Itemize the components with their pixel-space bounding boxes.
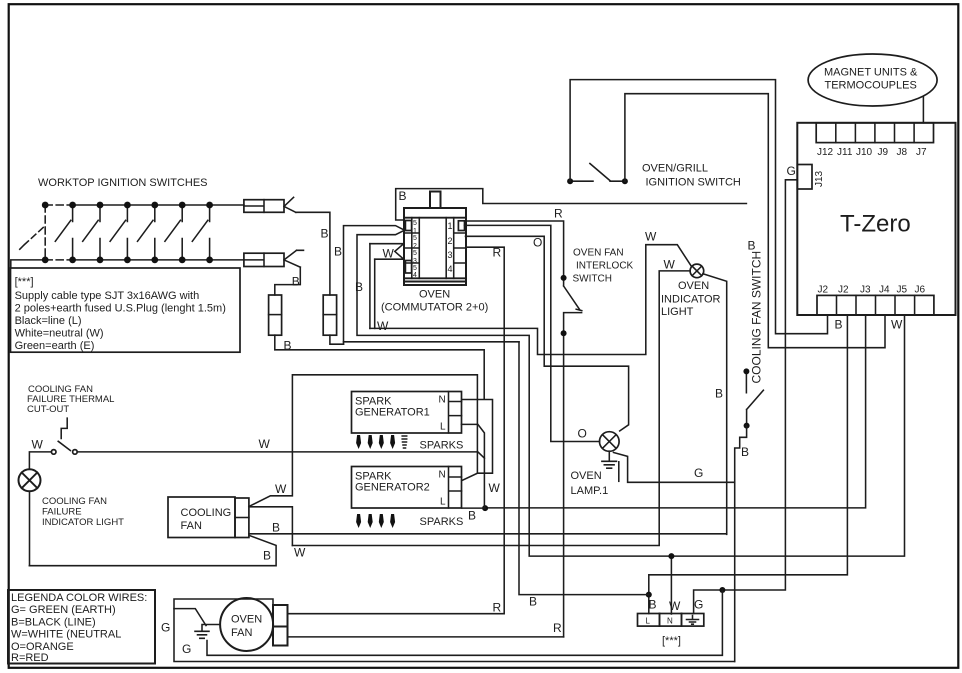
svg-text:J5: J5 [897, 285, 908, 296]
svg-text:4: 4 [413, 272, 417, 279]
svg-text:J6: J6 [915, 285, 926, 296]
svg-text:1: 1 [448, 221, 453, 231]
svg-text:B: B [649, 598, 657, 612]
oven commutator pin box left lower [405, 261, 411, 274]
svg-text:J13: J13 [814, 170, 825, 187]
wire B fuse F1 bottom to spark generator1 N [275, 335, 493, 473]
svg-text:J3: J3 [860, 285, 871, 296]
switch SW2 worktop [55, 205, 72, 260]
svg-text:B: B [334, 245, 342, 259]
svg-text:W: W [383, 247, 395, 261]
sparks arrows gen1 [356, 435, 395, 449]
oven fan motor M2 [220, 598, 273, 651]
svg-text:J12: J12 [817, 147, 834, 158]
svg-text:FAN: FAN [231, 627, 252, 639]
svg-text:[***]: [***] [662, 635, 681, 647]
connector arrow W into commutator [370, 244, 404, 260]
svg-text:OVEN: OVEN [571, 470, 602, 482]
svg-text:O: O [578, 427, 587, 441]
wire gen2 L to common dot [462, 507, 485, 509]
label supply cable note [15, 276, 226, 352]
sparks arrows gen2 [356, 514, 395, 528]
wire bottom rail dashed left [45, 259, 72, 261]
svg-text:FAN: FAN [181, 520, 202, 532]
oven commutator top band [404, 217, 466, 219]
svg-text:N: N [439, 470, 446, 481]
oven commutator pin box left top [405, 221, 411, 231]
spark generator2 pin column [449, 467, 462, 509]
wire J3 to spark generators common [485, 315, 865, 508]
svg-text:2 poles+earth fused U.S.Plug (: 2 poles+earth fused U.S.Plug (lenght 1.5… [15, 303, 226, 315]
label J2 J2 J3 J4 J5 J6 [818, 285, 926, 296]
svg-text:G= GREEN (EARTH): G= GREEN (EARTH) [11, 604, 116, 616]
svg-text:J10: J10 [856, 147, 873, 158]
svg-text:OVEN FAN: OVEN FAN [573, 248, 624, 259]
svg-text:J11: J11 [837, 147, 853, 158]
ground symbol in terminal cell [687, 616, 699, 625]
svg-text:Green=earth (E): Green=earth (E) [15, 340, 95, 352]
svg-text:5: 5 [413, 235, 417, 242]
svg-text:CUT-OUT: CUT-OUT [27, 404, 69, 415]
svg-text:INDICATOR LIGHT: INDICATOR LIGHT [42, 517, 124, 528]
svg-text:J2: J2 [818, 285, 829, 296]
connector J13 [797, 165, 812, 190]
wire B J2-2 to terminal L chain upper [649, 315, 848, 595]
svg-text:OVEN: OVEN [231, 614, 262, 626]
wire W oven indicator left loop [292, 271, 690, 546]
svg-text:B: B [741, 445, 749, 459]
svg-text:LIGHT: LIGHT [661, 306, 694, 318]
wire B cooling fan to failure indicator lamp [29, 536, 276, 566]
wire G from J13 down right side [722, 180, 797, 590]
svg-text:R: R [554, 207, 563, 221]
connector plug P2 bottom [244, 250, 304, 267]
wire B oven/grill switch left to T-zero J2 [570, 80, 827, 334]
wire G down to oven fan ground [207, 590, 722, 655]
lamp oven indicator light [690, 264, 704, 278]
switch SW4 worktop [110, 205, 127, 260]
svg-text:O=ORANGE: O=ORANGE [11, 641, 74, 653]
svg-text:W: W [377, 319, 389, 333]
node dot spark common [482, 505, 488, 511]
lamp oven lamp.1 [600, 432, 620, 452]
switch SW5 worktop [138, 205, 155, 260]
svg-text:Black=line (L): Black=line (L) [15, 315, 82, 327]
svg-text:B: B [292, 275, 300, 289]
cooling fan box M1 [168, 497, 235, 538]
spark generator2 box [352, 467, 462, 509]
cooling fan pin column [235, 498, 249, 538]
svg-text:OVEN/GRILL: OVEN/GRILL [642, 163, 708, 175]
svg-text:R: R [493, 601, 502, 615]
wire R interlock bottom to oven fan connector lower [288, 636, 564, 638]
wire bottom rail of worktop switches [73, 259, 244, 261]
ground symbol oven fan [174, 609, 220, 639]
svg-text:T-Zero: T-Zero [840, 211, 911, 238]
svg-text:INTERLOCK: INTERLOCK [576, 261, 634, 272]
switch oven/grill ignition [567, 164, 628, 185]
svg-text:SPARKS: SPARKS [420, 440, 464, 452]
svg-text:[***]: [***] [15, 276, 34, 288]
svg-text:B: B [399, 189, 407, 203]
pin numbers left strip [413, 220, 417, 279]
svg-text:G: G [787, 164, 796, 178]
svg-text:WORKTOP IGNITION SWITCHES: WORKTOP IGNITION SWITCHES [38, 177, 208, 189]
T-Zero module U2 box [797, 123, 955, 315]
label LEGENDA COLOR WIRES [11, 592, 147, 664]
spark generator1 box [352, 392, 462, 434]
node dot G junction [719, 587, 725, 593]
svg-text:FAILURE: FAILURE [42, 507, 82, 518]
wire ellipse to T-zero [922, 97, 924, 123]
sparks arrow gen1 striped [402, 436, 407, 448]
svg-text:COOLING FAN: COOLING FAN [42, 496, 107, 507]
svg-text:INDICATOR: INDICATOR [661, 294, 721, 306]
ground symbol oven lamp [602, 451, 617, 468]
svg-text:OVEN: OVEN [678, 280, 709, 292]
wire G oven lamp to G net [614, 453, 735, 483]
oven commutator right pin column [446, 218, 466, 279]
wire indicator lamp bottom [29, 491, 31, 565]
svg-text:B: B [835, 318, 843, 332]
wire gen1 L to spark common dot [462, 424, 485, 508]
T-Zero bottom connector row J2-J6 [817, 295, 934, 315]
svg-text:W: W [891, 318, 903, 332]
svg-text:W: W [645, 230, 657, 244]
svg-text:R=RED: R=RED [11, 652, 49, 664]
svg-text:L: L [646, 617, 651, 626]
wire B fuse F2 bottom link [330, 335, 344, 344]
svg-text:W: W [259, 437, 271, 451]
svg-text:G: G [182, 642, 191, 656]
oven commutator bottom bands [404, 278, 466, 281]
svg-text:B: B [355, 280, 363, 294]
wire O commutator pin2 to oven lamp top [466, 236, 629, 431]
node junction dots top rail [42, 202, 213, 209]
svg-text:O: O [533, 236, 542, 250]
wire W arrow lower down [374, 259, 376, 328]
svg-text:B: B [284, 339, 292, 353]
switch oven fan interlock [561, 275, 582, 637]
wire W cooling fan second branch to oven indicator [250, 507, 292, 546]
oven commutator left pin column [404, 218, 419, 279]
wire B oven indicator right to cooling fan B bus [703, 274, 727, 535]
svg-text:TERMOCOUPLES: TERMOCOUPLES [825, 80, 917, 92]
svg-text:B: B [272, 521, 280, 535]
svg-text:SPARKS: SPARKS [420, 516, 464, 528]
svg-text:OVEN: OVEN [419, 289, 450, 301]
wire B cooling fan bottom pin bus [249, 533, 727, 535]
node dot B at terminal [646, 592, 652, 598]
switch SW1 dashed blade [17, 226, 45, 252]
svg-text:B: B [529, 595, 537, 609]
svg-text:R: R [553, 621, 562, 635]
svg-text:4: 4 [448, 264, 453, 274]
terminal block TB1 [638, 614, 704, 627]
magnet units ellipse [808, 54, 937, 106]
wire B from terminal L feed horizontal [519, 342, 649, 595]
svg-text:W: W [275, 482, 287, 496]
svg-text:G: G [694, 598, 703, 612]
svg-text:LEGENDA COLOR WIRES:: LEGENDA COLOR WIRES: [11, 592, 147, 604]
wire W loop to oven indicator lamp [370, 245, 691, 355]
fuse F2 [323, 295, 336, 335]
svg-text:5: 5 [413, 220, 417, 227]
wire dashed left vertical [44, 205, 46, 260]
node junction dots bottom rail [42, 257, 213, 264]
wire R commutator pin1 to interlock [465, 221, 564, 278]
svg-text:W=WHITE (NEUTRAL: W=WHITE (NEUTRAL [11, 629, 121, 641]
svg-text:B: B [715, 387, 723, 401]
oven commutator top tab [430, 192, 441, 209]
svg-text:3: 3 [413, 258, 417, 265]
legend box [8, 590, 155, 664]
svg-text:W: W [664, 258, 676, 272]
oven commutator U1 outer box [404, 208, 466, 285]
svg-text:5: 5 [413, 265, 417, 272]
switch cooling fan [743, 368, 763, 428]
svg-text:J8: J8 [897, 147, 908, 158]
svg-text:W: W [32, 438, 44, 452]
wire B fuse F2 to commutator arrow upper [344, 226, 405, 345]
svg-text:W: W [489, 481, 501, 495]
switch SW6 worktop [165, 205, 182, 260]
T-Zero top connector row J12-J7 [816, 123, 933, 143]
svg-text:1: 1 [413, 228, 417, 235]
svg-text:W: W [294, 546, 306, 560]
node dot W line at N [668, 553, 674, 559]
svg-text:IGNITION SWITCH: IGNITION SWITCH [646, 177, 741, 189]
svg-text:B=BLACK (LINE): B=BLACK (LINE) [11, 616, 96, 628]
wire W gen2 N up to cooling fan W line [249, 375, 478, 507]
svg-text:R: R [493, 246, 502, 260]
svg-text:W: W [669, 599, 681, 613]
switch SW3 worktop [83, 205, 100, 260]
wire B cooling fan switch bottom to oven fan enclosure [735, 426, 747, 662]
spark generator1 pin column [449, 392, 462, 434]
svg-text:White=neutral (W): White=neutral (W) [15, 328, 104, 340]
svg-text:COOLING FAN SWITCH: COOLING FAN SWITCH [750, 251, 764, 384]
wire O commutator pin1b to oven lamp left [465, 225, 600, 441]
oven commutator pin box right top [458, 221, 464, 231]
svg-text:G: G [161, 621, 170, 635]
wire oven/grill switch right to T-zero J4 [625, 94, 885, 348]
wire B from plug P1 to fuse F2 [296, 212, 330, 295]
svg-text:SWITCH: SWITCH [573, 273, 612, 284]
svg-text:MAGNET UNITS &: MAGNET UNITS & [824, 67, 918, 79]
svg-text:N: N [667, 617, 673, 626]
svg-text:GENERATOR2: GENERATOR2 [355, 482, 430, 494]
lamp cooling fan failure indicator [19, 469, 41, 491]
svg-text:B: B [321, 227, 329, 241]
wire R commutator pin3 to oven fan connector [288, 247, 505, 614]
svg-text:2: 2 [413, 243, 417, 250]
svg-text:GENERATOR1: GENERATOR1 [355, 407, 430, 419]
svg-text:L: L [440, 422, 446, 433]
wire N terminal branch from W line [670, 556, 672, 614]
svg-text:2: 2 [448, 236, 453, 246]
svg-text:3: 3 [448, 250, 453, 260]
wire B terminal L vertical with dot [648, 595, 650, 614]
wire top rail of worktop switches [73, 204, 244, 206]
svg-text:B: B [748, 239, 756, 253]
svg-text:J7: J7 [916, 147, 927, 158]
switch SW7 worktop [192, 205, 209, 260]
svg-text:5: 5 [413, 250, 417, 257]
svg-text:N: N [439, 395, 446, 406]
svg-text:J9: J9 [878, 147, 889, 158]
wire top rail dashed left [45, 204, 72, 206]
wire B from plug P2 to fuse F1 [275, 267, 301, 295]
svg-text:L: L [440, 497, 446, 508]
wire B branch along y341.8 [344, 341, 520, 343]
label J12 J11 J10 J9 J8 J7 [817, 147, 927, 158]
svg-text:B: B [263, 549, 271, 563]
wire W supply to cutout [29, 452, 484, 469]
wire B arrow lower to terminal chain [357, 230, 905, 556]
wire B commutator top loop [396, 189, 747, 220]
svg-text:J4: J4 [879, 285, 890, 296]
svg-text:LAMP.1: LAMP.1 [571, 485, 609, 497]
connector plug P1 top [244, 197, 296, 212]
svg-text:J2: J2 [838, 285, 849, 296]
svg-text:B: B [468, 509, 476, 523]
pin numbers right strip [448, 221, 453, 274]
svg-text:G: G [694, 466, 703, 480]
oven fan enclosure [174, 599, 735, 662]
svg-text:Supply cable type SJT 3x16AWG: Supply cable type SJT 3x16AWG with [15, 290, 200, 302]
supply cable text box [11, 268, 241, 352]
wire W arrow upper down [369, 244, 371, 329]
svg-text:COOLING: COOLING [181, 507, 232, 519]
wire G terminal to J13 wire [694, 590, 723, 614]
oven fan connector boxes [273, 605, 288, 646]
thermal cutout switch [51, 418, 77, 454]
svg-text:(COMMUTATOR 2+0): (COMMUTATOR 2+0) [381, 302, 488, 314]
fuse F1 [269, 295, 282, 335]
lamp holder tick [618, 462, 620, 482]
wire bottom rail extension to left [11, 260, 45, 268]
